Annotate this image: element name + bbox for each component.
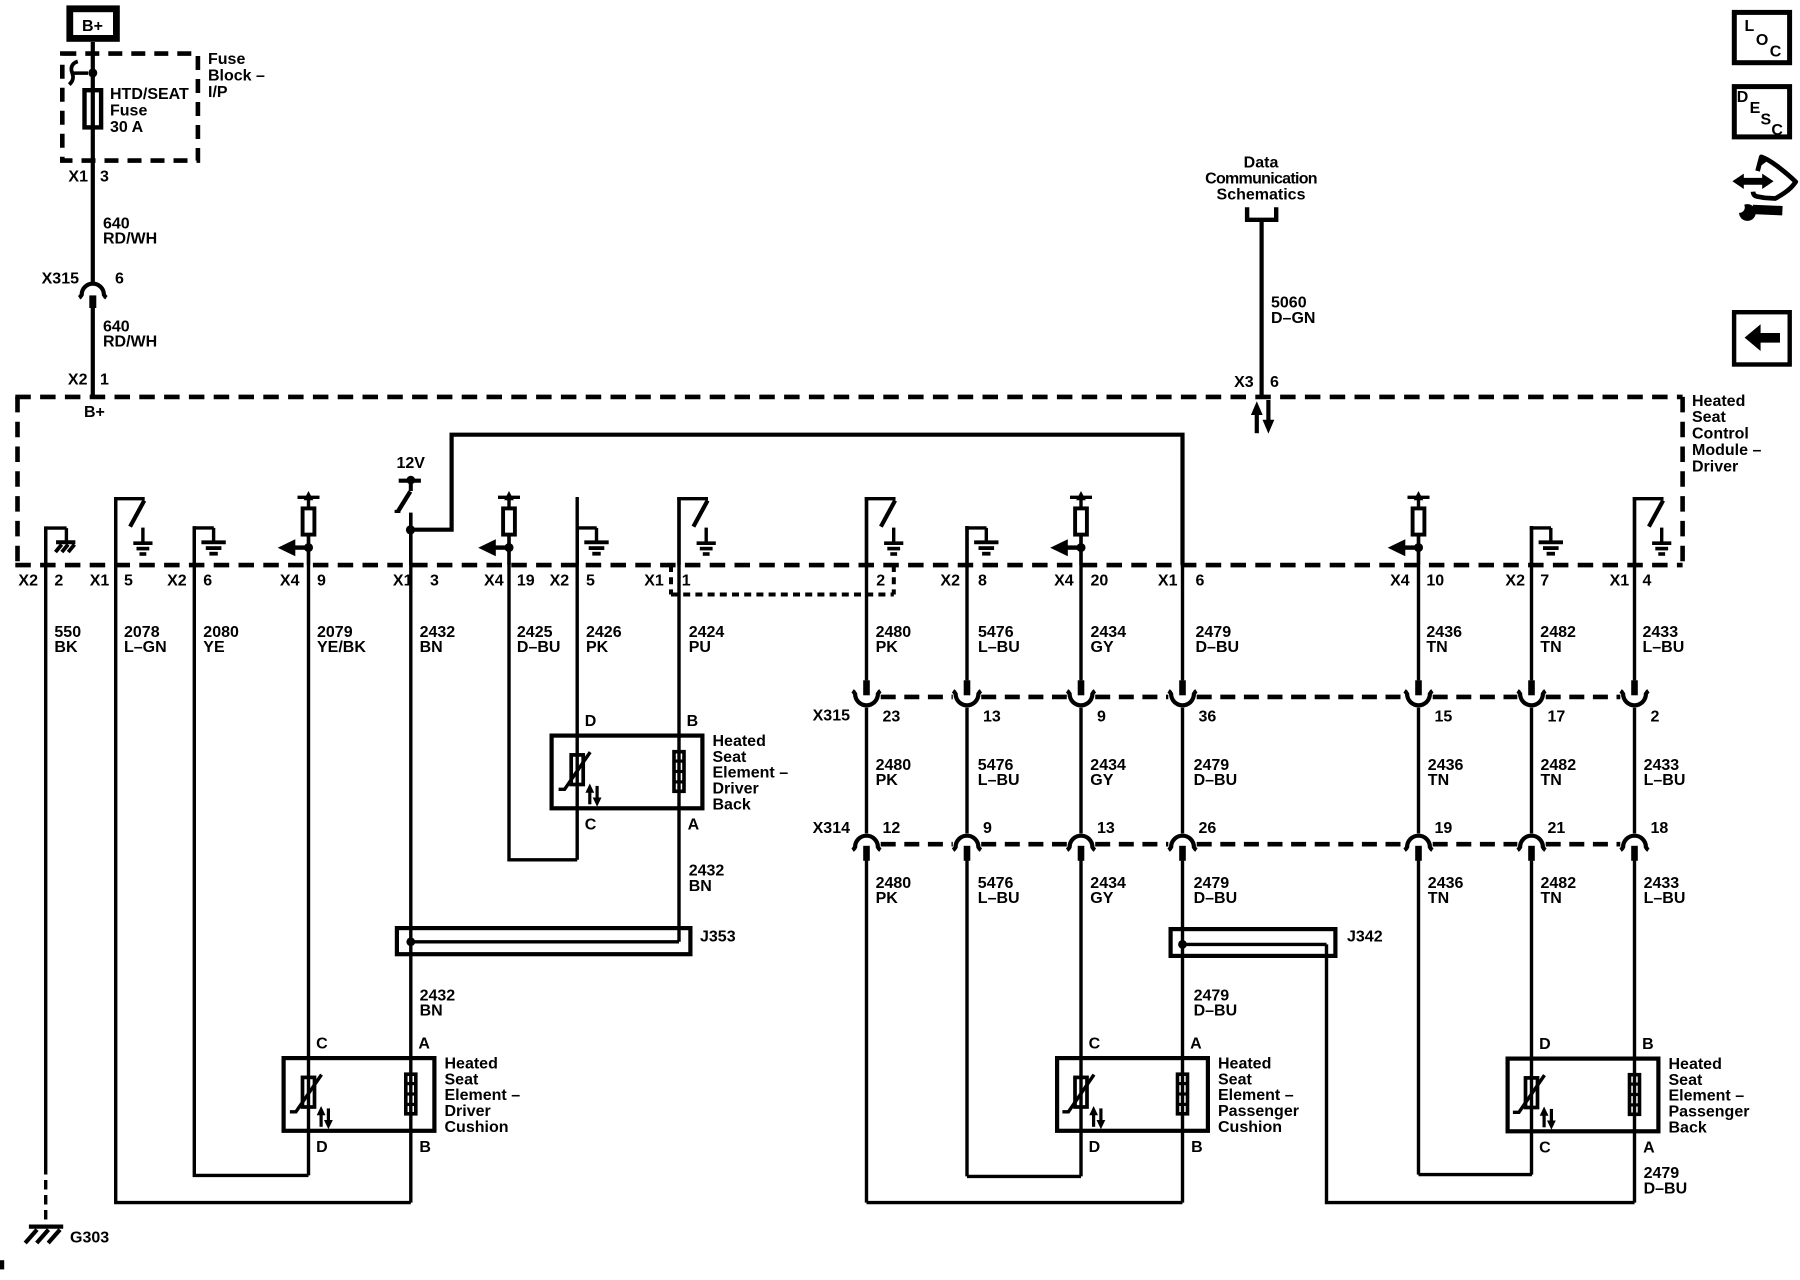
svg-text:D: D [1737, 89, 1749, 106]
switch to ground at X1-5 [114, 497, 153, 565]
svg-text:L–BU: L–BU [1643, 639, 1685, 656]
svg-text:D–BU: D–BU [517, 639, 561, 656]
wire 2424 PU [677, 497, 680, 942]
svg-text:B: B [1191, 1139, 1203, 1156]
svg-text:Heated: Heated [713, 733, 766, 750]
svg-text:B: B [687, 713, 699, 730]
svg-text:Passenger: Passenger [1218, 1103, 1299, 1120]
wire 2079 YE/BK [307, 537, 310, 1176]
svg-text:20: 20 [1091, 573, 1109, 590]
svg-text:21: 21 [1548, 820, 1566, 837]
svg-text:Back: Back [713, 796, 751, 813]
svg-text:D: D [316, 1139, 328, 1156]
LOC icon box [1734, 12, 1789, 62]
svg-text:TN: TN [1428, 772, 1449, 789]
svg-text:15: 15 [1435, 709, 1453, 726]
svg-text:E: E [1750, 100, 1761, 117]
svg-text:HTD/SEAT: HTD/SEAT [110, 86, 189, 103]
svg-text:X4: X4 [280, 573, 300, 590]
svg-text:BK: BK [54, 639, 78, 656]
svg-text:Passenger: Passenger [1669, 1104, 1750, 1121]
connector X315 dashed line [881, 695, 1621, 700]
svg-text:PK: PK [876, 890, 899, 907]
svg-text:Control: Control [1692, 426, 1749, 443]
svg-text:3: 3 [100, 168, 109, 185]
wire number labels row 1 [54, 624, 1684, 656]
svg-text:J353: J353 [700, 928, 736, 945]
svg-text:O: O [1756, 32, 1768, 49]
svg-text:D: D [1539, 1036, 1551, 1053]
svg-text:9: 9 [983, 820, 992, 837]
module connector pin labels [18, 573, 1651, 590]
chassis ground inside module at X2-2 [46, 526, 76, 565]
svg-text:Seat: Seat [1218, 1071, 1252, 1088]
switch to ground at X1-4 [1633, 497, 1672, 565]
svg-text:6: 6 [203, 573, 212, 590]
svg-text:Heated: Heated [1218, 1056, 1271, 1073]
wire 2434 GY [1079, 537, 1082, 1177]
svg-text:Module –: Module – [1692, 442, 1761, 459]
svg-text:YE: YE [203, 639, 225, 656]
label J342 [1347, 928, 1383, 945]
connector X315 terminals [853, 680, 1660, 725]
svg-text:Element –: Element – [713, 765, 789, 782]
label HTD/SEAT Fuse 30 A [110, 86, 189, 136]
svg-text:D–BU: D–BU [1194, 1003, 1238, 1020]
svg-text:Seat: Seat [445, 1071, 479, 1088]
svg-text:GY: GY [1090, 890, 1113, 907]
connector label X3 pin 6 [1234, 374, 1279, 391]
12V supply and switch at X1-3 [395, 455, 426, 512]
internal supply bus wire [406, 435, 1183, 565]
svg-text:X1: X1 [68, 168, 88, 185]
svg-text:Driver: Driver [713, 781, 759, 798]
svg-text:X1: X1 [1158, 573, 1178, 590]
wire 2480 PK [867, 497, 1183, 1203]
svg-text:26: 26 [1199, 820, 1217, 837]
sensor feed resistor at X4-20 [1050, 491, 1092, 565]
heated seat element - passenger back [1508, 1036, 1750, 1156]
svg-text:L–BU: L–BU [1644, 890, 1686, 907]
svg-text:L–GN: L–GN [124, 639, 167, 656]
svg-text:X1: X1 [644, 573, 664, 590]
label X315 [813, 707, 850, 724]
svg-text:L–BU: L–BU [978, 639, 1020, 656]
svg-text:13: 13 [1097, 820, 1115, 837]
in-line connector X315 pin 6 [42, 270, 124, 308]
wire 2436 TN [1419, 537, 1533, 1175]
splice J342 branch wire [1327, 944, 1635, 1202]
svg-text:Driver: Driver [1692, 458, 1738, 475]
svg-text:C: C [1539, 1140, 1551, 1157]
module name label [1692, 393, 1761, 476]
svg-text:TN: TN [1541, 890, 1562, 907]
svg-text:B: B [1642, 1036, 1654, 1053]
heated seat element - driver back [552, 713, 789, 833]
svg-text:Data: Data [1244, 155, 1279, 172]
wire number labels row 2 [876, 757, 1686, 789]
sensor feed resistor at X4-19 [478, 491, 520, 565]
wire 2426 PK through element [576, 497, 579, 860]
wire label 2479 D-BU (passenger back A drop) [1644, 1165, 1688, 1197]
svg-text:X315: X315 [813, 707, 850, 724]
wire 5476 L-BU [967, 526, 1081, 1176]
svg-text:Seat: Seat [1669, 1072, 1703, 1089]
svg-text:Heated: Heated [1669, 1056, 1722, 1073]
svg-text:5: 5 [124, 573, 133, 590]
wire 550 BK to G303 [44, 528, 47, 1223]
svg-text:Heated: Heated [445, 1056, 498, 1073]
svg-text:2: 2 [876, 573, 885, 590]
svg-text:Element –: Element – [445, 1087, 521, 1104]
svg-text:2: 2 [1651, 709, 1660, 726]
svg-text:9: 9 [1097, 709, 1106, 726]
switch to ground at X1-1 [677, 497, 716, 565]
connector label X1 pin 3 (fuse block output) [68, 168, 109, 185]
svg-text:X2: X2 [940, 573, 960, 590]
svg-text:RD/WH: RD/WH [103, 231, 157, 248]
ground G303 chassis symbol [25, 1227, 63, 1243]
svg-text:D: D [1089, 1139, 1101, 1156]
splice J353 [397, 928, 691, 954]
svg-text:PK: PK [586, 639, 609, 656]
svg-text:19: 19 [1435, 820, 1453, 837]
wire from B+ through fuse down to X315 [91, 42, 95, 282]
svg-text:Driver: Driver [445, 1103, 491, 1120]
svg-text:D–GN: D–GN [1271, 310, 1315, 327]
svg-text:BN: BN [689, 878, 712, 895]
svg-text:GY: GY [1090, 772, 1113, 789]
sensor feed resistor at X4-10 [1388, 491, 1430, 565]
svg-text:TN: TN [1426, 639, 1447, 656]
heated seat element - passenger cushion [1057, 1036, 1299, 1156]
svg-text:X2: X2 [550, 573, 570, 590]
svg-text:BN: BN [420, 1003, 443, 1020]
wire number labels row 3 [876, 875, 1686, 907]
ground at X2-7 [1530, 526, 1563, 565]
svg-text:RD/WH: RD/WH [103, 334, 157, 351]
svg-text:D–BU: D–BU [1196, 639, 1240, 656]
svg-text:BN: BN [420, 639, 443, 656]
svg-text:Fuse: Fuse [110, 102, 147, 119]
heated seat element - driver cushion [284, 1036, 521, 1156]
svg-text:9: 9 [317, 573, 326, 590]
svg-text:12: 12 [883, 820, 901, 837]
back arrow icon box [1734, 312, 1790, 364]
svg-text:X1: X1 [1610, 573, 1630, 590]
label X314 [813, 820, 850, 837]
svg-text:L–BU: L–BU [978, 890, 1020, 907]
svg-text:A: A [1190, 1036, 1202, 1053]
svg-text:J342: J342 [1347, 928, 1383, 945]
svg-text:D: D [585, 713, 597, 730]
svg-text:G303: G303 [70, 1229, 109, 1246]
svg-text:YE/BK: YE/BK [317, 639, 366, 656]
svg-text:C: C [1771, 122, 1783, 139]
wire 640 RD/WH lower segment [91, 308, 95, 398]
svg-text:TN: TN [1540, 639, 1561, 656]
svg-text:C: C [1089, 1036, 1101, 1053]
svg-text:Heated: Heated [1692, 393, 1745, 410]
svg-text:7: 7 [1540, 573, 1549, 590]
svg-text:C: C [316, 1036, 328, 1053]
svg-text:B+: B+ [84, 404, 105, 421]
svg-text:17: 17 [1548, 709, 1566, 726]
wire 2479 D-BU main run [1181, 565, 1184, 1203]
svg-text:6: 6 [1196, 573, 1205, 590]
svg-text:10: 10 [1426, 573, 1444, 590]
svg-text:5: 5 [586, 573, 595, 590]
svg-text:X2: X2 [68, 372, 88, 389]
ground at X2-5 [576, 526, 609, 565]
wire label 5060 D-GN [1271, 295, 1315, 327]
svg-text:X315: X315 [42, 270, 79, 287]
wire label 2479 D-BU (below splice) [1194, 987, 1238, 1019]
svg-text:Seat: Seat [713, 749, 747, 766]
svg-text:3: 3 [430, 573, 439, 590]
node B+ label inside module [84, 404, 105, 421]
schematic navigation icon (arrows and wrench) [1727, 157, 1796, 221]
svg-text:Cushion: Cushion [1218, 1119, 1282, 1136]
svg-text:TN: TN [1428, 890, 1449, 907]
svg-text:L–BU: L–BU [978, 772, 1020, 789]
label G303 [70, 1229, 109, 1246]
svg-text:X3: X3 [1234, 374, 1254, 391]
svg-text:1: 1 [682, 573, 691, 590]
page corner mark [0, 1260, 4, 1269]
svg-text:X2: X2 [1505, 573, 1525, 590]
svg-text:D–BU: D–BU [1644, 1180, 1688, 1197]
svg-text:PK: PK [876, 639, 899, 656]
svg-text:Block –: Block – [208, 67, 265, 84]
svg-text:L–BU: L–BU [1644, 772, 1686, 789]
svg-text:6: 6 [1270, 374, 1279, 391]
wire 2482 TN [1530, 526, 1533, 1175]
svg-text:Fuse: Fuse [208, 51, 245, 68]
svg-text:GY: GY [1091, 639, 1114, 656]
wire label 2432 BN (below splice) [420, 987, 456, 1019]
wire 2432 BN main run [409, 565, 412, 1203]
svg-text:X2: X2 [167, 573, 187, 590]
label J353 [700, 928, 736, 945]
svg-text:B+: B+ [82, 18, 103, 35]
svg-text:Seat: Seat [1692, 409, 1726, 426]
Heated Seat Control Module - Driver dashed border [15, 397, 1682, 565]
svg-text:A: A [688, 817, 700, 834]
off-page bracket [1247, 207, 1276, 220]
wire label 2432 BN (element B drop) [689, 863, 725, 895]
svg-text:I/P: I/P [208, 84, 228, 101]
svg-text:6: 6 [115, 270, 124, 287]
sensor feed resistor at X4-9 [278, 491, 320, 565]
svg-text:Schematics: Schematics [1217, 187, 1306, 204]
svg-text:PK: PK [876, 772, 899, 789]
wire 2425 D-BU [509, 537, 577, 860]
svg-text:L: L [1745, 18, 1755, 35]
DESC icon box [1734, 87, 1789, 139]
svg-text:S: S [1761, 112, 1772, 129]
svg-text:X314: X314 [813, 820, 850, 837]
svg-text:Element –: Element – [1669, 1088, 1745, 1105]
ground at X2-8 [965, 526, 998, 565]
wire 2078 L-GN [116, 497, 411, 1203]
svg-text:D–BU: D–BU [1194, 772, 1238, 789]
svg-text:X2: X2 [18, 573, 38, 590]
battery terminal B+ box [70, 9, 117, 39]
label Data Communication Schematics [1205, 155, 1317, 204]
svg-text:C: C [1770, 43, 1782, 60]
splice J342 [1171, 929, 1336, 956]
svg-text:TN: TN [1541, 772, 1562, 789]
svg-text:23: 23 [883, 709, 901, 726]
svg-text:D–BU: D–BU [1194, 890, 1238, 907]
svg-text:Communication: Communication [1205, 171, 1317, 188]
serial data up/down arrows [1251, 400, 1274, 434]
connector X314 terminals [853, 820, 1669, 861]
svg-text:4: 4 [1643, 573, 1652, 590]
svg-text:B: B [419, 1139, 431, 1156]
svg-text:19: 19 [517, 573, 535, 590]
svg-text:8: 8 [978, 573, 987, 590]
wire 2433 L-BU [1633, 497, 1636, 1203]
fuse element hook and terminal [69, 61, 97, 84]
svg-text:Element –: Element – [1218, 1087, 1294, 1104]
ground at X2-6 [193, 526, 226, 565]
svg-text:PU: PU [689, 639, 711, 656]
switch to ground at pin 2 [865, 497, 904, 565]
wire label 640 RD/WH (upper) [103, 215, 157, 247]
wire 5060 D-GN [1259, 220, 1263, 398]
svg-text:A: A [418, 1036, 430, 1053]
svg-text:X4: X4 [1390, 573, 1410, 590]
connector X314 dashed line [881, 842, 1621, 847]
svg-text:13: 13 [983, 709, 1001, 726]
svg-text:X1: X1 [90, 573, 110, 590]
dotted connector group box under pins 1 and 2 [671, 565, 894, 595]
label Fuse Block - I/P [208, 51, 265, 101]
svg-text:A: A [1643, 1140, 1655, 1157]
svg-text:12V: 12V [397, 455, 426, 472]
svg-text:30 A: 30 A [110, 119, 144, 136]
svg-text:18: 18 [1651, 820, 1669, 837]
svg-text:Cushion: Cushion [445, 1119, 509, 1136]
fuse block I/P dashed box [62, 54, 198, 161]
svg-text:C: C [585, 817, 597, 834]
svg-text:2: 2 [54, 573, 63, 590]
svg-text:X4: X4 [484, 573, 504, 590]
connector label X2 pin 1 (module input) [68, 372, 109, 389]
svg-text:X4: X4 [1054, 573, 1074, 590]
fuse HTD/SEAT 30A body [85, 90, 102, 127]
wire 2080 YE [194, 527, 308, 1175]
svg-text:1: 1 [100, 372, 109, 389]
svg-text:Back: Back [1669, 1119, 1707, 1136]
wire label 640 RD/WH (lower) [103, 318, 157, 350]
svg-text:36: 36 [1199, 709, 1217, 726]
